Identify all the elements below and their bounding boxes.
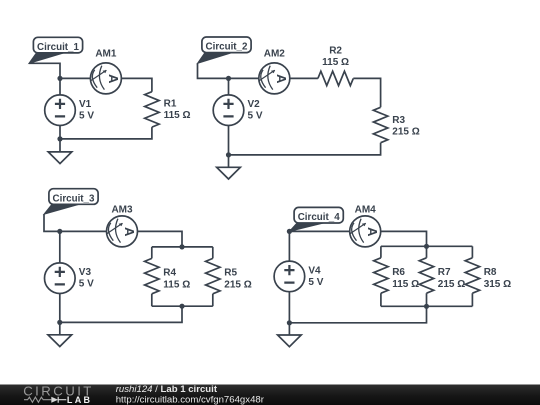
wire node B3 to ground: [59, 322, 61, 334]
wire node B1 to ground: [59, 139, 61, 152]
svg-text:R8: R8: [484, 267, 497, 278]
flag Circuit_2: [198, 37, 252, 63]
wire R3 bottom to node B2: [229, 143, 381, 155]
node C3-bottom junction: [179, 304, 184, 309]
flag Circuit_1: [29, 37, 83, 63]
svg-text:315 Ω: 315 Ω: [484, 279, 511, 290]
wire V3 minus to node B3: [59, 294, 61, 323]
svg-text:rushi124 / Lab 1 circuit: rushi124 / Lab 1 circuit: [116, 384, 218, 395]
wire R5 bottom lead: [212, 294, 214, 306]
voltage source V2 5 V: [213, 95, 263, 126]
resistor R2 115 &#937;: [318, 45, 353, 85]
svg-text:AM3: AM3: [111, 205, 133, 216]
ground: [217, 167, 241, 179]
svg-text:V4: V4: [308, 265, 321, 276]
wire node A3 to AM3: [60, 230, 107, 232]
wire bottom rail C4: [381, 305, 473, 307]
node A4 junction: [287, 229, 292, 234]
resistor R8 315 &#937;: [465, 258, 511, 293]
wire bottom rail C3: [152, 305, 213, 307]
svg-text:R7: R7: [438, 267, 451, 278]
svg-text:R5: R5: [224, 268, 237, 279]
resistor R4 115 &#937;: [145, 258, 191, 293]
wire flag to node A1: [29, 63, 60, 78]
wire node A1 to AM1: [60, 77, 90, 79]
node A1 junction: [57, 76, 62, 81]
resistor R1 115 &#937;: [145, 92, 191, 127]
resistor R5 215 &#937;: [206, 258, 252, 293]
wire V2 minus to node B2: [228, 126, 230, 155]
wire node A2 to V2 plus: [228, 78, 230, 95]
wire node A4 to AM4: [289, 230, 349, 232]
svg-text:R1: R1: [164, 99, 177, 110]
wire R6 top lead: [380, 246, 382, 257]
svg-text:R4: R4: [163, 268, 176, 279]
svg-text:Circuit_4: Circuit_4: [298, 212, 340, 223]
wire node A2 to AM2: [229, 77, 259, 79]
resistor R7 215 &#937;: [419, 258, 465, 293]
ground: [48, 335, 72, 347]
svg-text:AM1: AM1: [95, 49, 117, 60]
svg-text:LAB: LAB: [67, 395, 92, 405]
svg-text:5 V: 5 V: [79, 111, 94, 122]
wire R8 top lead: [471, 246, 473, 257]
node B2 junction: [226, 152, 231, 157]
svg-text:Circuit_2: Circuit_2: [206, 42, 248, 53]
wire AM2 to R2: [290, 77, 318, 79]
svg-text:http://circuitlab.com/cvfgn764: http://circuitlab.com/cvfgn764gx48r: [116, 394, 265, 405]
node B4 junction: [287, 320, 292, 325]
ammeter AM1: [90, 49, 121, 94]
svg-text:5 V: 5 V: [79, 279, 94, 290]
svg-text:V3: V3: [79, 267, 92, 278]
ammeter AM3: [107, 205, 138, 247]
svg-text:5 V: 5 V: [248, 111, 263, 122]
footer title text: [116, 384, 218, 395]
wire R1 bottom to node B1: [60, 127, 152, 139]
svg-text:115 Ω: 115 Ω: [322, 57, 349, 68]
wire R5 top lead: [212, 247, 214, 259]
CircuitLab logo: [23, 384, 94, 405]
node C3-top junction: [179, 244, 184, 249]
wire node B4 to ground: [288, 323, 290, 335]
node C4-top junction: [424, 244, 429, 249]
wire flag to node A2: [198, 63, 229, 78]
svg-text:5 V: 5 V: [308, 277, 323, 288]
svg-text:A: A: [365, 227, 380, 237]
wire V1 minus to node B1: [59, 126, 61, 139]
svg-text:215 Ω: 215 Ω: [392, 127, 419, 138]
wire AM3 to top rail C3: [138, 231, 183, 247]
svg-text:AM2: AM2: [264, 49, 286, 60]
wire R7 bottom lead: [426, 293, 428, 306]
svg-text:115 Ω: 115 Ω: [392, 279, 419, 290]
footer bar: [0, 385, 540, 405]
svg-text:V1: V1: [79, 99, 92, 110]
wire node B2 to ground: [228, 155, 230, 167]
svg-text:115 Ω: 115 Ω: [163, 279, 190, 290]
footer url text: [116, 394, 265, 405]
wire bottom rail to node B4: [289, 306, 426, 323]
svg-text:R3: R3: [392, 115, 405, 126]
wire R4 bottom lead: [151, 294, 153, 306]
wire AM1 to R1 top: [121, 78, 151, 91]
node B1 junction: [57, 136, 62, 141]
flag Circuit_3: [44, 189, 98, 215]
wire V4 minus to node B4: [288, 292, 290, 323]
wire top rail C4: [381, 245, 473, 247]
node A3 junction: [57, 229, 62, 234]
wire R4 top lead: [151, 247, 153, 259]
wire bottom rail to node B3: [60, 306, 182, 322]
voltage source V4 5 V: [274, 261, 324, 292]
wire R2 to R3 top: [353, 78, 380, 107]
wire AM4 to top rail C4: [381, 231, 427, 246]
node C4-bottom junction: [424, 304, 429, 309]
wire flag to node A3: [44, 214, 60, 231]
ammeter AM4: [350, 205, 381, 247]
wire R8 bottom lead: [471, 293, 473, 306]
svg-text:R6: R6: [392, 267, 405, 278]
wire node A4 to V4 plus: [288, 231, 290, 261]
flag Circuit_4: [289, 207, 343, 231]
svg-text:115 Ω: 115 Ω: [164, 110, 191, 121]
wire node A1 to V1 plus: [59, 78, 61, 95]
ammeter AM2: [259, 49, 290, 94]
wire top rail C3: [152, 246, 213, 248]
svg-text:A: A: [122, 227, 137, 237]
svg-text:AM4: AM4: [355, 205, 377, 216]
svg-text:Circuit_3: Circuit_3: [53, 193, 95, 204]
voltage source V1 5 V: [45, 95, 95, 126]
svg-text:R2: R2: [329, 45, 342, 56]
node A2 junction: [226, 76, 231, 81]
svg-text:215 Ω: 215 Ω: [224, 279, 251, 290]
wire R6 bottom lead: [380, 293, 382, 306]
ground: [48, 152, 72, 164]
resistor R6 115 &#937;: [374, 258, 419, 293]
resistor R3 215 &#937;: [373, 107, 419, 142]
svg-text:215 Ω: 215 Ω: [438, 279, 465, 290]
svg-text:A: A: [106, 74, 121, 84]
svg-text:Circuit_1: Circuit_1: [37, 42, 79, 53]
node B3 junction: [57, 320, 62, 325]
ground: [278, 335, 302, 347]
svg-text:V2: V2: [248, 99, 261, 110]
voltage source V3 5 V: [45, 263, 95, 294]
wire R7 top lead: [426, 246, 428, 257]
svg-text:A: A: [274, 74, 289, 84]
wire node A3 to V3 plus: [59, 231, 61, 263]
